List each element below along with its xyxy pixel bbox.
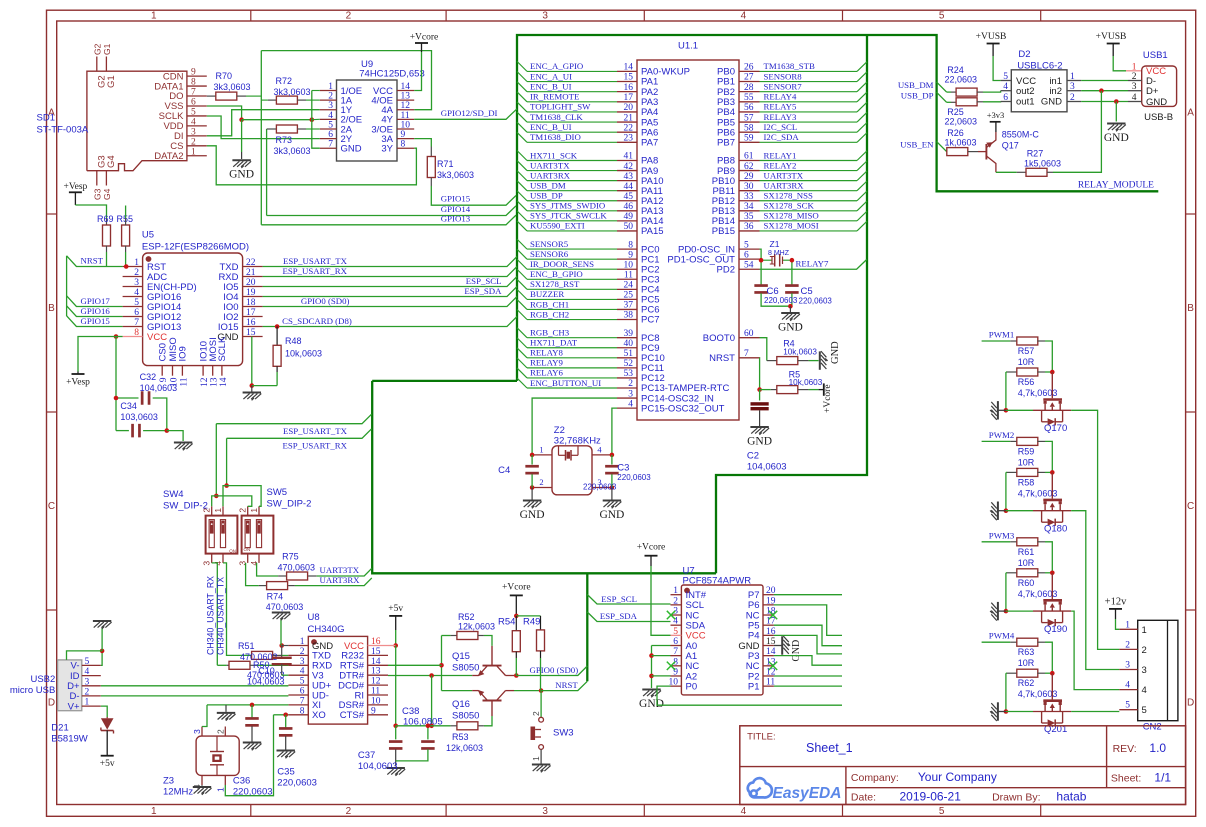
svg-text:ENC_B_GPIO: ENC_B_GPIO [530,269,583,279]
svg-text:KU5590_EXTI: KU5590_EXTI [530,221,585,231]
svg-text:5: 5 [673,627,678,637]
svg-text:NRST: NRST [555,680,578,690]
svg-text:GPIO13: GPIO13 [441,214,471,224]
svg-text:SW_DIP-2: SW_DIP-2 [163,501,208,512]
svg-text:PCF8574APWR: PCF8574APWR [683,576,752,587]
svg-text:14: 14 [624,63,634,73]
svg-text:10k,0603: 10k,0603 [285,349,322,359]
svg-text:1.0: 1.0 [1149,741,1166,755]
svg-text:GND: GND [791,640,802,662]
svg-text:1: 1 [1142,625,1147,636]
svg-text:2: 2 [673,596,678,606]
svg-text:CS_SDCARD (D8): CS_SDCARD (D8) [282,316,352,326]
svg-text:TOPLIGHT_SW: TOPLIGHT_SW [530,102,591,112]
svg-text:Z2: Z2 [554,425,565,436]
svg-text:RELAY4: RELAY4 [764,92,798,102]
svg-text:UART3RX: UART3RX [764,180,805,190]
svg-text:4: 4 [191,117,196,127]
svg-text:GPIO0 (SD0): GPIO0 (SD0) [530,665,579,675]
svg-text:4: 4 [597,444,602,454]
svg-text:104,0603: 104,0603 [747,462,787,473]
svg-text:RGB_CH2: RGB_CH2 [530,309,569,319]
svg-text:R70: R70 [216,71,233,81]
svg-text:ON: ON [244,547,251,552]
svg-text:RGB_CH1: RGB_CH1 [530,299,569,309]
svg-text:R71: R71 [437,159,454,169]
svg-text:13: 13 [401,92,411,102]
svg-text:35: 35 [744,212,754,222]
svg-text:220,0603: 220,0603 [277,778,317,789]
svg-text:4: 4 [249,561,259,566]
svg-text:27: 27 [744,73,754,83]
svg-text:PA15: PA15 [641,226,664,237]
svg-text:SX1278_MOSI: SX1278_MOSI [764,221,819,231]
svg-text:CH340_USART_TX: CH340_USART_TX [216,577,226,655]
svg-text:DATA2: DATA2 [154,151,183,162]
svg-text:+Vesp: +Vesp [63,182,87,192]
svg-text:TITLE:: TITLE: [747,732,776,743]
svg-text:4: 4 [328,111,333,121]
svg-text:GPIO16: GPIO16 [81,306,111,316]
svg-text:10R: 10R [1018,558,1035,568]
svg-text:B: B [1187,303,1194,314]
svg-text:REV:: REV: [1113,743,1137,755]
svg-text:1: 1 [151,11,157,22]
svg-text:ENC_BUTTON_UI: ENC_BUTTON_UI [530,378,601,388]
svg-text:7: 7 [744,349,749,359]
svg-text:56: 56 [744,103,754,113]
svg-text:Sheet_1: Sheet_1 [806,741,853,755]
svg-text:23: 23 [624,134,634,144]
svg-text:USB2: USB2 [30,674,55,685]
svg-text:RGB_CH3: RGB_CH3 [530,328,570,338]
svg-text:R59: R59 [1018,446,1035,456]
svg-text:USB1: USB1 [1143,50,1168,61]
svg-text:C10: C10 [258,666,275,676]
svg-text:13: 13 [371,667,381,677]
svg-text:8: 8 [628,240,633,250]
svg-text:3: 3 [202,561,212,566]
svg-text:4: 4 [1125,681,1130,691]
svg-text:C: C [48,501,55,512]
svg-text:60: 60 [744,329,754,339]
svg-text:11: 11 [401,111,410,121]
svg-text:2: 2 [539,477,543,487]
svg-text:Q170: Q170 [1044,423,1067,434]
svg-text:11: 11 [371,687,380,697]
svg-text:USB_DP: USB_DP [901,90,934,100]
svg-text:R49: R49 [523,617,540,628]
svg-text:2: 2 [300,647,305,657]
svg-text:11: 11 [179,377,189,386]
svg-text:+12v: +12v [1105,597,1127,608]
svg-text:9: 9 [401,130,406,140]
svg-text:micro USB: micro USB [10,685,55,696]
svg-text:TM1638_DIO: TM1638_DIO [530,132,581,142]
svg-text:3: 3 [542,806,548,817]
svg-text:ST-TF-003A: ST-TF-003A [37,125,89,136]
svg-text:3: 3 [300,657,305,667]
svg-text:53: 53 [624,369,634,379]
svg-text:1: 1 [328,82,333,92]
svg-text:G2: G2 [92,43,102,55]
svg-text:IO9: IO9 [178,346,189,361]
svg-text:104,0603: 104,0603 [140,383,178,393]
svg-text:52: 52 [624,359,634,369]
svg-text:6: 6 [191,97,196,107]
svg-text:D21: D21 [51,723,68,734]
svg-text:3: 3 [542,11,548,22]
svg-text:Q16: Q16 [452,699,470,710]
svg-text:G4: G4 [106,155,117,168]
svg-text:R51: R51 [238,641,255,651]
svg-text:3k3,0603: 3k3,0603 [437,170,474,180]
svg-text:22: 22 [624,123,634,133]
svg-text:SCLK: SCLK [217,336,228,361]
svg-text:8550M-C: 8550M-C [1002,129,1040,139]
svg-text:220,0603: 220,0603 [233,787,273,798]
svg-text:8: 8 [191,78,196,88]
svg-text:GND: GND [639,698,664,710]
svg-text:5: 5 [191,107,196,117]
svg-text:1: 1 [531,756,541,761]
svg-text:R52: R52 [458,612,475,622]
svg-text:GND: GND [1041,96,1062,107]
svg-text:SENSOR5: SENSOR5 [530,239,569,249]
svg-text:RELAY7: RELAY7 [796,258,830,268]
svg-text:SENSOR8: SENSOR8 [764,71,803,81]
svg-text:2019-06-21: 2019-06-21 [900,790,962,804]
svg-text:P1: P1 [748,681,760,692]
svg-text:2: 2 [346,806,352,817]
svg-text:38: 38 [624,311,634,321]
svg-text:C34: C34 [120,401,137,411]
svg-text:GPIO15: GPIO15 [81,316,111,326]
svg-text:3: 3 [328,101,333,111]
svg-text:U1.1: U1.1 [678,41,698,52]
svg-text:+Vcore: +Vcore [637,543,666,553]
svg-text:10R: 10R [1018,357,1035,367]
svg-text:VCC: VCC [147,332,167,343]
svg-text:SW4: SW4 [163,489,184,500]
svg-text:5: 5 [1003,72,1008,82]
svg-text:9: 9 [159,377,169,382]
svg-text:U8: U8 [308,612,320,623]
svg-text:CTS#: CTS# [340,710,365,721]
svg-text:9: 9 [628,250,633,260]
svg-text:ESP_SCL: ESP_SCL [466,276,502,286]
svg-text:PB15: PB15 [712,226,735,237]
svg-text:3k3,0603: 3k3,0603 [274,87,311,97]
svg-text:12: 12 [200,377,210,387]
svg-text:+Vcore: +Vcore [823,384,833,413]
svg-text:R56: R56 [1018,377,1035,387]
svg-text:GPIO17: GPIO17 [81,296,111,306]
svg-text:+Vcore: +Vcore [502,583,531,593]
svg-text:5: 5 [1142,705,1147,716]
svg-text:U5: U5 [142,230,154,241]
svg-text:SENSOR6: SENSOR6 [530,249,569,259]
svg-text:5: 5 [85,657,90,667]
svg-text:USB_DP: USB_DP [530,191,563,201]
svg-text:+3v3: +3v3 [987,110,1005,120]
svg-text:8 MHZ: 8 MHZ [768,250,790,257]
svg-text:UART3TX: UART3TX [530,160,570,170]
svg-text:GND: GND [341,144,362,155]
svg-text:1: 1 [1132,62,1137,72]
svg-text:C: C [1187,501,1194,512]
svg-text:57: 57 [744,113,754,123]
svg-text:54: 54 [744,260,754,270]
svg-text:NRST: NRST [709,353,735,364]
svg-text:39: 39 [624,329,634,339]
svg-text:4,7k,0603: 4,7k,0603 [1018,388,1058,398]
svg-text:+VUSB: +VUSB [1096,32,1127,42]
svg-text:SW5: SW5 [267,487,288,498]
svg-text:RELAY8: RELAY8 [530,348,564,358]
svg-text:Company:: Company: [851,772,899,784]
svg-text:1/1: 1/1 [1154,771,1171,785]
svg-text:ON: ON [229,549,236,554]
svg-text:A: A [1187,108,1194,119]
svg-text:R48: R48 [285,336,302,346]
svg-text:+5v: +5v [388,604,403,614]
svg-text:V+: V+ [68,701,80,712]
svg-text:C38: C38 [402,706,419,717]
svg-text:6: 6 [673,637,678,647]
svg-text:4: 4 [1132,93,1137,103]
svg-text:12: 12 [401,101,411,111]
svg-text:D: D [1187,697,1194,708]
svg-text:4: 4 [741,11,747,22]
svg-text:PWM3: PWM3 [989,530,1015,540]
svg-text:S8050: S8050 [452,663,479,674]
svg-text:3: 3 [1125,661,1130,671]
svg-text:3: 3 [85,677,90,687]
svg-text:32,768KHz: 32,768KHz [554,436,601,447]
svg-text:C36: C36 [233,776,250,787]
svg-text:12: 12 [371,677,381,687]
svg-text:GND: GND [1146,97,1167,108]
svg-text:R58: R58 [1018,477,1035,487]
svg-text:C32: C32 [140,372,157,382]
svg-text:1: 1 [215,787,225,792]
svg-text:13: 13 [766,657,776,667]
svg-text:6: 6 [744,250,749,260]
svg-text:C4: C4 [498,465,510,476]
svg-text:61: 61 [744,152,754,162]
svg-text:SX1278_MISO: SX1278_MISO [764,211,819,221]
svg-text:S8050: S8050 [452,711,479,722]
svg-text:BOOT0: BOOT0 [703,333,735,344]
svg-text:+Vcore: +Vcore [410,33,439,43]
svg-text:21: 21 [624,113,634,123]
svg-text:R62: R62 [1018,678,1035,688]
svg-text:Date:: Date: [851,792,876,804]
svg-text:G1: G1 [102,43,112,55]
svg-text:2: 2 [628,379,633,389]
svg-text:PWM4: PWM4 [989,631,1015,641]
svg-text:Z3: Z3 [163,776,174,787]
svg-text:ENC_B_UI: ENC_B_UI [530,122,572,132]
svg-text:4: 4 [628,399,633,409]
svg-text:out1: out1 [1016,96,1035,107]
svg-text:SW3: SW3 [553,728,574,739]
svg-text:6: 6 [1003,93,1008,103]
svg-text:R69: R69 [97,214,114,224]
svg-text:16: 16 [246,318,256,328]
svg-text:G1: G1 [106,75,117,88]
svg-text:24: 24 [624,281,634,291]
svg-text:7: 7 [191,88,196,98]
svg-text:20: 20 [246,278,256,288]
svg-text:PWM2: PWM2 [989,430,1014,440]
svg-text:43: 43 [624,172,634,182]
svg-text:USBLC6-2: USBLC6-2 [1017,60,1062,71]
svg-text:10: 10 [624,260,634,270]
svg-text:30: 30 [744,182,754,192]
svg-text:4,7k,0603: 4,7k,0603 [1018,689,1058,699]
svg-text:Drawn By:: Drawn By: [992,792,1040,804]
svg-text:9: 9 [371,706,376,716]
svg-text:3: 3 [1132,82,1137,92]
svg-text:16: 16 [371,637,381,647]
svg-text:R54: R54 [498,617,515,628]
svg-text:9: 9 [191,68,196,78]
svg-text:3: 3 [1070,82,1075,92]
svg-text:R72: R72 [276,76,293,86]
svg-text:4: 4 [1003,82,1008,92]
svg-text:G3: G3 [92,188,102,200]
svg-text:Q17: Q17 [1002,141,1019,151]
svg-text:8: 8 [300,706,305,716]
svg-text:3k3,0603: 3k3,0603 [274,146,311,156]
svg-text:USB_DM: USB_DM [898,80,934,90]
svg-text:4,7k,0603: 4,7k,0603 [1018,488,1058,498]
svg-text:UART3TX: UART3TX [764,170,804,180]
svg-text:SYS_JTMS_SWDIO: SYS_JTMS_SWDIO [530,201,605,211]
svg-text:2: 2 [1142,645,1147,656]
svg-text:4: 4 [134,288,139,298]
svg-text:RELAY6: RELAY6 [530,368,564,378]
svg-text:SX1278_RST: SX1278_RST [530,279,580,289]
svg-text:5: 5 [939,806,945,817]
svg-text:1: 1 [85,698,90,708]
svg-text:1: 1 [213,508,223,513]
svg-text:3: 3 [1142,665,1147,676]
svg-text:XO: XO [312,710,326,721]
svg-text:106,0805: 106,0805 [403,717,443,728]
svg-text:18: 18 [766,607,776,617]
svg-text:4: 4 [1142,685,1147,696]
svg-text:20: 20 [624,103,634,113]
svg-text:ESP_SCL: ESP_SCL [601,594,637,604]
svg-text:11: 11 [624,270,633,280]
svg-text:GND: GND [747,436,772,448]
svg-text:3: 3 [192,729,202,734]
svg-text:8: 8 [134,328,139,338]
svg-text:4: 4 [300,667,305,677]
svg-text:Your Company: Your Company [918,770,997,784]
svg-text:3k3,0603: 3k3,0603 [214,82,251,92]
svg-text:49: 49 [624,212,634,222]
svg-text:PD2: PD2 [717,264,735,275]
svg-text:220,0603: 220,0603 [764,296,798,305]
svg-text:103,0603: 103,0603 [120,412,158,422]
svg-text:B5819W: B5819W [51,734,87,745]
svg-text:7: 7 [134,318,139,328]
svg-text:+VUSB: +VUSB [976,32,1007,42]
svg-text:GND: GND [1104,132,1129,144]
svg-text:2: 2 [215,729,225,734]
svg-text:4: 4 [85,667,90,677]
svg-text:BUZZER: BUZZER [530,289,564,299]
svg-text:2: 2 [85,687,90,697]
svg-text:CH340_USART_RX: CH340_USART_RX [206,576,216,655]
svg-text:18: 18 [246,298,256,308]
svg-text:5: 5 [300,677,305,687]
svg-text:G4: G4 [102,188,112,200]
svg-text:GPIO15: GPIO15 [441,194,471,204]
svg-text:50: 50 [624,222,634,232]
svg-text:36: 36 [744,222,754,232]
svg-text:ENC_B_UI: ENC_B_UI [530,81,572,91]
svg-text:USB_EN: USB_EN [900,140,934,150]
svg-text:ENC_A_UI: ENC_A_UI [530,71,572,81]
svg-text:1: 1 [191,147,196,157]
svg-text:R55: R55 [117,214,134,224]
svg-text:42: 42 [624,162,634,172]
svg-text:3: 3 [134,278,139,288]
svg-text:GPIO0 (SD0): GPIO0 (SD0) [301,296,350,306]
svg-text:1: 1 [249,508,259,513]
svg-text:220,0603: 220,0603 [617,473,651,482]
svg-text:51: 51 [624,349,634,359]
svg-text:104,0603: 104,0603 [247,677,285,687]
svg-text:5: 5 [134,298,139,308]
svg-text:NRST: NRST [81,255,104,265]
svg-text:R25: R25 [947,107,964,117]
svg-text:Q180: Q180 [1044,523,1067,534]
svg-text:16: 16 [624,83,634,93]
svg-text:R61: R61 [1018,547,1035,557]
svg-text:6: 6 [134,308,139,318]
svg-text:2: 2 [134,268,139,278]
svg-text:Sheet:: Sheet: [1111,773,1141,785]
svg-text:2: 2 [346,11,352,22]
svg-text:UART3TX: UART3TX [320,565,360,575]
svg-text:SYS_JTCK_SWCLK: SYS_JTCK_SWCLK [530,211,607,221]
svg-text:D: D [48,697,55,708]
svg-text:ESP_USART_RX: ESP_USART_RX [283,441,348,451]
svg-text:P0: P0 [686,681,698,692]
svg-text:B: B [48,303,55,314]
svg-text:PC7: PC7 [641,315,659,326]
svg-text:10: 10 [371,696,381,706]
svg-text:55: 55 [744,93,754,103]
svg-text:40: 40 [624,339,634,349]
svg-text:10k,0603: 10k,0603 [783,348,817,357]
svg-text:PA7: PA7 [641,138,658,149]
svg-text:17: 17 [624,93,634,103]
svg-text:2: 2 [191,137,196,147]
svg-text:2: 2 [1070,93,1075,103]
svg-text:IR_REMOTE: IR_REMOTE [530,92,579,102]
svg-text:3Y: 3Y [381,144,393,155]
svg-text:R26: R26 [947,128,964,138]
svg-text:C35: C35 [277,767,294,778]
svg-text:RELAY1: RELAY1 [764,150,797,160]
